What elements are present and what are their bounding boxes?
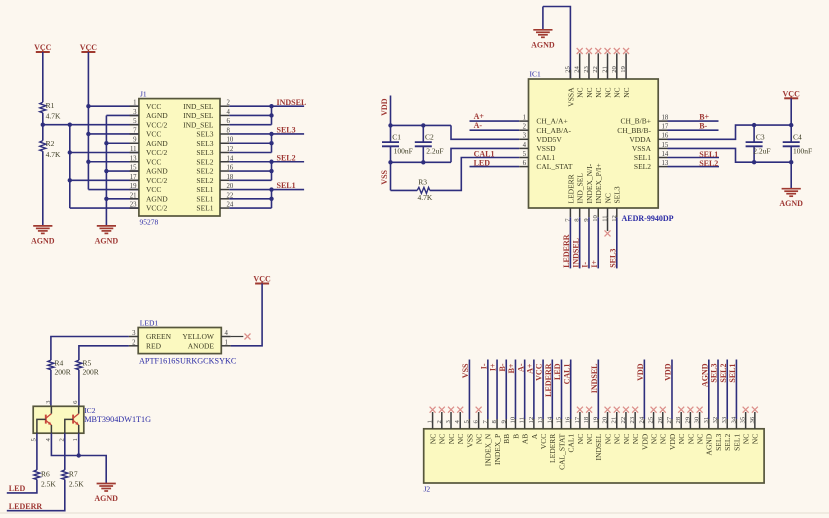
pin 30 J2 NC	[694, 412, 705, 444]
svg-text:2: 2	[436, 420, 443, 423]
pin 16 IC1 VDDA	[629, 133, 669, 144]
svg-text:B+: B+	[507, 363, 516, 373]
svg-text:11: 11	[130, 146, 137, 153]
svg-text:LED1: LED1	[140, 319, 159, 328]
no-connect X pin 19	[623, 48, 629, 54]
svg-text:SEL1: SEL1	[699, 150, 718, 159]
wire J1 pin 18 link	[229, 179, 271, 181]
svg-text:7: 7	[133, 127, 137, 134]
svg-text:CAL1: CAL1	[567, 434, 576, 453]
no-connect X J2 pin 3	[448, 407, 454, 413]
svg-text:VDD: VDD	[636, 363, 645, 381]
no-connect X J2 pin 36	[752, 407, 758, 413]
wire VCC to LED1 pin 1	[231, 284, 263, 346]
wire IC1 pin 1 A+	[470, 120, 520, 122]
pin 19 IC1 NC (top)	[620, 53, 631, 98]
svg-text:SEL1: SEL1	[634, 153, 651, 162]
svg-text:A-: A-	[516, 363, 525, 372]
pin 6 J2 NC	[473, 412, 484, 444]
pin 8 J2 INDEX_P	[491, 360, 502, 466]
svg-text:19: 19	[620, 65, 627, 72]
no-connect X J2 pin 28	[678, 407, 684, 413]
svg-text:MBT3904DW1T1G: MBT3904DW1T1G	[84, 415, 151, 424]
svg-text:CAL1: CAL1	[474, 149, 495, 158]
svg-text:INDEX_N: INDEX_N	[484, 433, 493, 466]
svg-text:95278: 95278	[140, 218, 159, 227]
wire IC1 pin 9 down	[588, 217, 590, 268]
capacitor C3 2.2uF	[746, 125, 771, 162]
wire cap bottom rail	[391, 161, 452, 163]
svg-text:SEL3: SEL3	[710, 364, 719, 383]
svg-text:NC: NC	[649, 434, 658, 444]
node VCC rail pin13 tap	[86, 160, 90, 164]
wire IC1 pin 8 down	[579, 217, 581, 268]
wire J1 pin 7	[88, 133, 138, 135]
pin 9 J2 BB	[500, 360, 511, 444]
node INDSEL rail tap B	[269, 113, 273, 117]
wire VDD down to cap rail	[390, 96, 392, 126]
svg-text:CH_BB/B-: CH_BB/B-	[617, 126, 651, 135]
svg-text:23: 23	[629, 416, 636, 423]
wire IC2 pin 2 to R7	[64, 433, 66, 470]
pin 5 IC1 CAL1	[519, 151, 555, 162]
wire AGND rail pins 3-21	[105, 115, 107, 225]
svg-text:23: 23	[130, 202, 137, 209]
pin 1 LED1 ANODE	[188, 339, 231, 350]
no-connect X J2 pin 21	[614, 407, 620, 413]
svg-text:LED: LED	[9, 484, 26, 493]
svg-text:16: 16	[565, 416, 572, 423]
svg-text:LEDERR: LEDERR	[566, 174, 575, 203]
svg-text:VDD: VDD	[380, 98, 389, 116]
pin 14 J1 SEL2	[196, 155, 233, 166]
pin 21 IC1 NC (top)	[602, 53, 613, 98]
svg-text:NC: NC	[594, 88, 603, 98]
svg-text:25: 25	[564, 65, 571, 72]
svg-text:I-: I-	[581, 262, 590, 268]
svg-text:NC: NC	[686, 434, 695, 444]
svg-text:BB: BB	[502, 434, 511, 444]
svg-text:B: B	[511, 434, 520, 439]
transistor Q2 (IC2 right)	[65, 406, 79, 433]
pin 4 J2 NC	[454, 412, 465, 444]
pin 17 IC1 CH_BB/B-	[617, 124, 669, 135]
pin 13 IC1 SEL2	[634, 160, 669, 171]
svg-text:SEL2: SEL2	[719, 364, 728, 383]
svg-text:RED: RED	[146, 341, 162, 350]
node emitter rail junction	[77, 453, 81, 457]
svg-text:VCC: VCC	[146, 130, 161, 139]
svg-text:IND_SEL: IND_SEL	[183, 120, 214, 129]
wire IC1 pin 7 down	[569, 217, 571, 268]
svg-text:VCC: VCC	[80, 43, 98, 52]
svg-text:4: 4	[225, 330, 229, 337]
pin 15 J1 AGND	[130, 165, 169, 176]
svg-text:J2: J2	[424, 485, 431, 494]
pin 18 IC1 CH_B/B+	[621, 115, 669, 126]
node AGND rail pin15 tap	[104, 169, 108, 173]
svg-text:CAL_STAT: CAL_STAT	[557, 433, 566, 469]
wire IC1 pin 25 to AGND	[543, 7, 571, 80]
power VCC (J1 VCC rail)	[80, 43, 98, 52]
wire divider node to J1 pin 5	[43, 124, 139, 126]
svg-text:R6: R6	[41, 470, 50, 479]
pin 2 IC1 CH_AB/A-	[519, 124, 571, 135]
svg-text:SEL2: SEL2	[699, 159, 718, 168]
pin 8 J1 SEL3	[196, 127, 230, 138]
svg-text:LEDERR: LEDERR	[9, 502, 43, 511]
node VCC/2 rail top tap	[68, 123, 72, 127]
resistor R7 2.5K	[62, 470, 84, 489]
svg-text:VSS: VSS	[380, 169, 389, 184]
no-connect X J2 pin 25	[651, 407, 657, 413]
svg-text:SEL2: SEL2	[277, 153, 296, 162]
op-amp IC1 body AEDR-9940DP	[529, 79, 659, 208]
svg-text:3: 3	[133, 109, 137, 116]
no-connect X J2 pin 1	[430, 407, 436, 413]
svg-text:AGND: AGND	[146, 139, 168, 148]
transistor array IC2 body	[33, 406, 84, 433]
svg-text:SEL2: SEL2	[196, 176, 213, 185]
wire IC1 pin 2 A-	[470, 129, 520, 131]
wire J1 pin 16 link	[229, 170, 271, 172]
no-connect X J2 pin 22	[623, 407, 629, 413]
svg-text:CAL1: CAL1	[536, 153, 555, 162]
pin 2 LED1 RED	[129, 339, 162, 350]
svg-text:VCC: VCC	[34, 43, 52, 52]
svg-text:NC: NC	[447, 434, 456, 444]
pin 28 J2 NC	[675, 412, 686, 444]
pin 25 IC1 VSSA (top)	[564, 65, 575, 106]
svg-text:R3: R3	[418, 178, 427, 187]
svg-text:INDSEL: INDSEL	[277, 98, 307, 107]
pin 3 J1 AGND	[130, 109, 169, 120]
power VCC (LED anode)	[253, 275, 271, 284]
svg-text:CAL1: CAL1	[562, 364, 571, 385]
svg-text:VSSD: VSSD	[536, 144, 556, 153]
wire rail to IC1 pin 4	[451, 148, 519, 162]
wire J1 pin 11	[70, 152, 139, 154]
svg-text:IC1: IC1	[530, 70, 542, 79]
svg-text:VCC: VCC	[535, 363, 544, 381]
pin 9 IC1 INDEX_N/I- (bottom)	[583, 163, 594, 221]
wire J1 pin 13	[88, 161, 138, 163]
svg-text:SEL1: SEL1	[196, 194, 213, 203]
wire J1 pin 1	[88, 105, 138, 107]
wire IC1 pin 17 B-	[668, 129, 719, 131]
wire SEL3 output	[229, 133, 304, 135]
svg-text:NC: NC	[603, 434, 612, 444]
wire J1 pin 9	[106, 142, 138, 144]
svg-text:2.2uF: 2.2uF	[753, 147, 770, 156]
pin 17 J2 NC	[574, 412, 585, 444]
wire J1 pin 4 link	[229, 114, 271, 116]
wire IC2 pin 4 emitter rail	[51, 433, 106, 483]
pin 6 IC1 CAL_STAT	[519, 160, 573, 171]
svg-text:IC2: IC2	[84, 406, 96, 415]
wire R3 to IC1 pin 5	[430, 158, 519, 191]
svg-text:2: 2	[132, 339, 136, 346]
svg-text:GREEN: GREEN	[146, 332, 172, 341]
wire IC1 pin 18 B+	[668, 120, 719, 122]
svg-text:A+: A+	[525, 363, 534, 374]
svg-text:AGND: AGND	[146, 194, 168, 203]
svg-text:LEDERR: LEDERR	[544, 363, 553, 397]
svg-text:VCC/2: VCC/2	[146, 148, 168, 157]
pin 6 J1 IND_SEL	[183, 118, 230, 129]
svg-text:19: 19	[592, 416, 599, 423]
svg-text:23: 23	[583, 65, 590, 72]
svg-text:AGND: AGND	[705, 433, 714, 455]
svg-text:13: 13	[537, 416, 544, 423]
wire VCC rail down to pin 19	[87, 52, 89, 190]
svg-text:26: 26	[657, 416, 664, 423]
svg-text:NC: NC	[576, 88, 585, 98]
node VCC rail pin7 tap	[86, 132, 90, 136]
no-connect X J2 pin 30	[697, 407, 703, 413]
svg-text:100nF: 100nF	[394, 147, 413, 156]
svg-text:VCC: VCC	[253, 275, 271, 284]
pin 4 IC1 VSSD	[519, 142, 556, 153]
pin 12 J2 A	[528, 360, 539, 440]
svg-text:24: 24	[638, 416, 645, 423]
pin 15 J2 CAL_STAT	[555, 360, 566, 470]
pin 25 J2 NC	[648, 412, 659, 444]
svg-text:R2: R2	[46, 139, 55, 148]
pin 24 J2 VDD	[638, 360, 649, 451]
svg-text:9: 9	[133, 137, 137, 144]
svg-text:17: 17	[130, 174, 137, 181]
svg-text:24: 24	[574, 65, 581, 72]
svg-text:I-: I-	[479, 363, 488, 369]
no-connect X pin 21	[605, 48, 611, 54]
svg-text:B-: B-	[498, 363, 507, 371]
pin 11 J2 AB	[519, 360, 530, 445]
wire J1 pin 23	[70, 207, 139, 209]
pin 31 J2 AGND	[703, 360, 714, 456]
node C1 bottom	[388, 160, 392, 164]
svg-text:28: 28	[675, 416, 682, 423]
svg-text:B-: B-	[699, 122, 707, 131]
svg-text:R5: R5	[83, 359, 92, 368]
svg-text:15: 15	[555, 416, 562, 423]
pin 21 J2 NC	[611, 412, 622, 444]
pin 32 J2 SEL3	[712, 360, 723, 451]
ground AGND (right)	[779, 189, 803, 209]
pin 5 J1 VCC/2	[130, 118, 168, 129]
pin 33 J2 SEL2	[721, 360, 732, 451]
svg-text:I+: I+	[590, 260, 599, 268]
svg-text:VDD: VDD	[640, 433, 649, 450]
svg-text:AGND: AGND	[779, 199, 803, 208]
svg-text:NC: NC	[742, 434, 751, 444]
pin 34 J2 SEL1	[730, 360, 741, 451]
wire VSS down to R3	[390, 162, 392, 190]
svg-text:AGND: AGND	[95, 236, 119, 245]
svg-text:A-: A-	[474, 121, 483, 130]
svg-text:INDEX_P/I+: INDEX_P/I+	[594, 163, 603, 203]
pin 23 J2 NC	[629, 412, 640, 444]
svg-text:200R: 200R	[83, 368, 99, 377]
svg-text:NC: NC	[603, 193, 612, 203]
pin 1 IC1 CH_A/A+	[519, 115, 568, 126]
pin 16 J1 SEL2	[196, 165, 233, 176]
wire J1 pin 10 link	[229, 142, 271, 144]
node C3 bottom	[752, 160, 756, 164]
svg-text:27: 27	[666, 416, 673, 423]
wire cap top rail	[391, 124, 452, 126]
wire IC2 pin 5 to R6	[36, 433, 38, 470]
svg-text:20: 20	[602, 416, 609, 423]
svg-text:NC: NC	[622, 434, 631, 444]
wire LED1 pin 3 to R4	[51, 337, 129, 361]
svg-text:C3: C3	[756, 132, 765, 141]
node SEL1 rail tap A	[269, 187, 273, 191]
pin 35 J2 NC	[740, 412, 751, 444]
svg-text:SEL1: SEL1	[732, 434, 741, 451]
svg-text:21: 21	[611, 417, 618, 424]
resistor R3 4.7K	[417, 178, 433, 202]
wire IC1 pin 13 SEL2	[668, 166, 720, 168]
svg-text:NC: NC	[613, 434, 622, 444]
pin 27 J2 VDD	[666, 360, 677, 451]
pin 10 IC1 INDEX_P/I+ (bottom)	[592, 163, 603, 221]
wire INDSEL output	[229, 105, 304, 107]
wire to AGND right	[790, 162, 792, 189]
no-connect X pin 23	[586, 48, 592, 54]
wire J1 pin 3	[106, 114, 138, 116]
wire R6 to LED net	[7, 480, 37, 493]
svg-text:VDD5V: VDD5V	[536, 135, 562, 144]
svg-text:INDEX_N/I-: INDEX_N/I-	[585, 163, 594, 203]
node C1 top	[388, 123, 392, 127]
svg-text:IND_SEL: IND_SEL	[576, 173, 585, 204]
node VCC/2 rail pin17 tap	[68, 178, 72, 182]
no-connect X pin 11	[605, 230, 611, 236]
wire IC1 pin 10 down	[597, 217, 599, 268]
capacitor C1 100nF	[382, 125, 413, 162]
resistor R2 4.7K	[40, 125, 61, 159]
pin 1 J2 NC	[427, 412, 438, 444]
svg-text:LEDERR: LEDERR	[548, 434, 557, 463]
wire VSS rail to R3	[391, 189, 418, 191]
svg-text:3: 3	[523, 133, 527, 140]
no-connect X J2 pin 17	[577, 407, 583, 413]
svg-text:3: 3	[132, 330, 136, 337]
pin 14 IC1 SEL1	[634, 151, 669, 162]
no-connect X J2 pin 4	[457, 407, 463, 413]
svg-text:22: 22	[620, 417, 627, 424]
svg-text:NC: NC	[438, 434, 447, 444]
svg-text:12: 12	[528, 417, 535, 424]
node INDSEL rail tap A	[269, 104, 273, 108]
connector J2 body	[424, 429, 764, 483]
wire R4 to IC2 pin 3	[50, 370, 52, 407]
pin 3 IC1 VDD5V	[519, 133, 562, 144]
pin 4 J1 IND_SEL	[183, 109, 230, 120]
power VCC (right)	[783, 89, 801, 98]
svg-text:4.7K: 4.7K	[46, 112, 61, 121]
pin 3 J2 NC	[445, 412, 456, 444]
wire SEL2 output	[229, 161, 304, 163]
resistor R1 4.7K	[40, 101, 61, 121]
svg-text:1: 1	[427, 420, 434, 423]
svg-text:VCC: VCC	[783, 89, 801, 98]
svg-text:AGND: AGND	[94, 494, 118, 503]
svg-text:SEL2: SEL2	[196, 167, 213, 176]
wire VCC to R1	[42, 52, 44, 102]
svg-text:CAL_STAT: CAL_STAT	[536, 162, 572, 171]
svg-text:LED: LED	[553, 363, 562, 380]
svg-text:CH_A/A+: CH_A/A+	[536, 117, 567, 126]
no-connect X J2 pin 18	[586, 407, 592, 413]
node VCC/2 rail pin11 tap	[68, 150, 72, 154]
ground AGND (IC2 emitters)	[94, 484, 118, 504]
pin 7 J1 VCC	[130, 127, 162, 138]
svg-text:SEL3: SEL3	[196, 148, 213, 157]
svg-text:C1: C1	[392, 132, 401, 141]
svg-text:AGND: AGND	[31, 236, 55, 245]
node SEL2 rail tap B	[269, 169, 273, 173]
wire J1 pin 12 link	[229, 152, 271, 154]
svg-text:4.7K: 4.7K	[418, 193, 433, 202]
node SEL1 rail tap B	[269, 197, 273, 201]
wire SEL3 group rail	[271, 134, 273, 153]
svg-text:VCC/2: VCC/2	[146, 120, 168, 129]
svg-text:SEL3: SEL3	[608, 249, 617, 268]
pin 23 J1 VCC/2	[130, 202, 168, 213]
wire J1 pin 6 link	[229, 124, 271, 126]
svg-text:NC: NC	[585, 88, 594, 98]
pin 12 IC1 SEL3 (bottom)	[611, 186, 622, 222]
node SEL3 rail tap A	[269, 132, 273, 136]
node C4 top / VCC	[789, 123, 793, 127]
no-connect X J2 pin 29	[687, 407, 693, 413]
wire IC1 pin 12 down	[616, 217, 618, 268]
wire J1 pin 24 link	[229, 207, 271, 209]
svg-text:200R: 200R	[55, 368, 71, 377]
svg-text:CH_AB/A-: CH_AB/A-	[536, 126, 571, 135]
svg-text:32: 32	[712, 417, 719, 424]
node VCC rail pin1 tap	[86, 104, 90, 108]
pin 20 J2 NC	[602, 412, 613, 444]
pin 24 J1 SEL1	[196, 202, 233, 213]
svg-text:5: 5	[523, 151, 527, 158]
svg-text:VCC: VCC	[146, 102, 161, 111]
svg-text:NC: NC	[677, 434, 686, 444]
svg-text:NC: NC	[603, 88, 612, 98]
svg-text:INDSEL: INDSEL	[590, 364, 599, 394]
svg-text:2: 2	[523, 124, 527, 131]
wire J1 pin 22 link	[229, 198, 271, 200]
node C3 top	[752, 123, 756, 127]
svg-text:15: 15	[130, 165, 137, 172]
svg-text:1: 1	[225, 339, 228, 346]
pin 2 J1 IND_SEL	[183, 100, 230, 111]
svg-text:14: 14	[546, 416, 553, 423]
wire IC1 pin 6 LED	[470, 166, 520, 168]
svg-text:AGND: AGND	[146, 167, 168, 176]
pin 9 J1 AGND	[130, 137, 169, 148]
ground AGND (J1 rail)	[95, 226, 119, 246]
svg-text:NC: NC	[659, 434, 668, 444]
svg-text:21: 21	[130, 192, 137, 199]
wire IC1 pin 11 NC stub	[607, 217, 609, 231]
node SEL3 rail tap B	[269, 141, 273, 145]
svg-text:R1: R1	[46, 101, 55, 110]
node VCC/2 divider junction	[41, 123, 45, 127]
svg-text:30: 30	[694, 416, 701, 423]
